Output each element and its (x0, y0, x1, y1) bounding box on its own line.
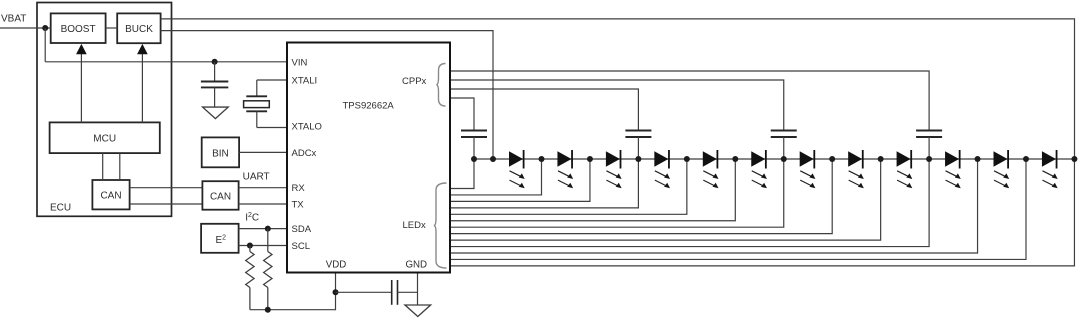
BOOST converter block (51, 13, 106, 43)
wire crystal to XTALO (256, 111, 258, 127)
capacitor C2 (VDD decoupling) (391, 280, 393, 305)
wire LED10 tap return (451, 159, 978, 253)
LED D3 (606, 150, 622, 188)
wire chain-top tap return (451, 159, 474, 189)
resistor R2 (SDA pull-up) (267, 229, 269, 252)
wire LED3 tap return (451, 159, 638, 208)
svg-text:TX: TX (292, 200, 305, 211)
capacitor C4 (CPP2) (625, 130, 651, 132)
wire pull-up rail to VDD (250, 292, 336, 309)
svg-text:TPS92662A: TPS92662A (343, 101, 395, 112)
junction dot node n2 (587, 156, 593, 162)
wire MCU control to BOOST (80, 54, 82, 122)
wire LED6 tap return (451, 159, 784, 227)
junction dot VBAT node (42, 25, 48, 31)
wire CPP4 rail (451, 71, 929, 131)
LED D5 (703, 150, 719, 188)
wire VBAT node down to VIN rail (44, 28, 46, 62)
svg-text:VIN: VIN (292, 57, 308, 68)
wire BOOST output rail (top) (161, 19, 1075, 159)
wire CPP3 rail (451, 80, 784, 131)
wire XTALO pin (257, 127, 287, 129)
wire VBAT to BOOST input (0, 27, 51, 29)
arrowhead into BOOST (76, 44, 87, 54)
junction dot node n11 (1023, 156, 1029, 162)
wire CPP1 rail (451, 98, 474, 131)
svg-text:I2C: I2C (245, 212, 259, 224)
wire XTALI to crystal (256, 80, 258, 96)
LED D7 (800, 150, 816, 188)
junction dot VIN capacitor tap (212, 59, 218, 65)
LED D9 (897, 150, 913, 188)
wire LED5 tap return (451, 159, 735, 221)
svg-text:LEDx: LEDx (403, 220, 426, 231)
svg-text:XTALI: XTALI (292, 76, 318, 87)
junction dot SCL pull-up tap (247, 243, 253, 249)
svg-text:BIN: BIN (212, 148, 229, 159)
junction dot pull-up rail (265, 307, 271, 313)
junction dot node n10 (975, 156, 981, 162)
svg-text:UART: UART (243, 171, 270, 182)
wire LED1 tap return (451, 159, 542, 195)
svg-text:GND: GND (406, 259, 428, 270)
junction dot node n3 (635, 156, 641, 162)
svg-text:ADCx: ADCx (292, 148, 317, 159)
arrowhead into BUCK (137, 44, 148, 54)
svg-text:VBAT: VBAT (1, 14, 26, 25)
svg-text:RX: RX (292, 183, 306, 194)
wire LED chain bus (474, 158, 1075, 160)
resistor R1 (SCL pull-up) (249, 246, 251, 252)
LED D11 (994, 150, 1010, 188)
wire GND pin stub (417, 273, 419, 306)
wire LED11 tap return (451, 159, 1026, 259)
wire C4 to LED chain (637, 137, 639, 159)
svg-text:XTALO: XTALO (292, 122, 322, 133)
wire capacitor to ground (214, 87, 216, 107)
svg-text:ECU: ECU (50, 203, 71, 214)
wire CAN to CAN bus lower (130, 203, 203, 205)
LED D10 (945, 150, 961, 188)
capacitor C1 (VIN decoupling) (201, 81, 228, 83)
junction dot VDD node (333, 289, 339, 295)
wire BOOST to BUCK (106, 27, 118, 29)
wire SDA (239, 228, 287, 230)
wire C3 to LED chain (473, 137, 475, 159)
junction dot BUCK feed (490, 156, 496, 162)
brace CPPx pin group (436, 64, 445, 107)
ground symbol (GND pin) (405, 305, 431, 317)
capacitor C6 (CPP4) (916, 130, 942, 132)
CAN transceiver block (external) (202, 181, 238, 210)
junction dot node n1 (539, 156, 545, 162)
wire LED9 tap return (451, 159, 929, 247)
wire RX (239, 187, 287, 189)
junction dot node n12 (1071, 156, 1077, 162)
svg-text:BOOST: BOOST (61, 24, 96, 35)
crystal Y1 (246, 95, 267, 97)
MCU block (50, 122, 160, 153)
junction dot node n4 (684, 156, 690, 162)
junction dot node n9 (926, 156, 932, 162)
svg-text:BUCK: BUCK (125, 24, 153, 35)
svg-text:VDD: VDD (326, 259, 346, 270)
wire VDD node to capacitor (336, 291, 392, 293)
wire VIN node to capacitor (214, 62, 216, 82)
LED D1 (509, 150, 525, 188)
wire VDD pin stub (335, 273, 337, 293)
wire CPP2 rail (451, 89, 638, 131)
IC U1 TPS92662A outline (287, 43, 450, 273)
LED D8 (848, 150, 864, 188)
junction dot node n7 (829, 156, 835, 162)
wire C6 to LED chain (928, 137, 930, 159)
LED D12 (1042, 150, 1058, 188)
wire SCL (239, 245, 287, 247)
wire capacitor to GND pin (398, 291, 418, 293)
svg-text:SDA: SDA (292, 224, 312, 235)
wire LED12 tap return (chain end) (451, 159, 1074, 266)
junction dot SDA pull-up tap (265, 226, 271, 232)
svg-text:CPPx: CPPx (402, 76, 427, 87)
capacitor C5 (CPP3) (771, 130, 797, 132)
wire LED2 tap return (451, 159, 590, 201)
junction dot node n5 (732, 156, 738, 162)
wire LED7 tap return (451, 159, 832, 234)
wire MCU control to BUCK (141, 54, 143, 122)
wire C5 to LED chain (783, 137, 785, 159)
svg-text:SCL: SCL (292, 241, 310, 252)
wire LED4 tap return (451, 159, 687, 214)
LED D4 (654, 150, 670, 188)
junction dot node n8 (878, 156, 884, 162)
wire LED8 tap return (451, 159, 881, 240)
svg-text:CAN: CAN (100, 191, 121, 202)
junction dot chain start (471, 156, 477, 162)
svg-text:MCU: MCU (93, 134, 116, 145)
BUCK converter block (117, 13, 160, 43)
BIN block (202, 137, 239, 167)
wire TX (239, 203, 287, 205)
wire BIN to ADCx pin (239, 151, 287, 153)
ground symbol (VIN cap) (203, 107, 229, 119)
ECU block outline (37, 3, 172, 217)
LED D2 (557, 150, 573, 188)
brace LEDx pin group (434, 183, 447, 268)
wire XTALI pin (257, 79, 287, 81)
capacitor C3 (CPP1) (461, 130, 487, 132)
wire VIN rail to TPS92662A VIN pin (45, 61, 287, 63)
wire MCU to CAN right (119, 153, 121, 180)
LED D6 (751, 150, 767, 188)
wire BUCK output rail to LED chain start (161, 31, 493, 159)
CAN transceiver block (ECU) (92, 180, 129, 209)
svg-text:CAN: CAN (210, 191, 231, 202)
junction dot node n6 (781, 156, 787, 162)
EEPROM E2 block (201, 224, 239, 253)
wire CAN to CAN bus upper (130, 187, 203, 189)
wire MCU to CAN left (102, 153, 104, 180)
